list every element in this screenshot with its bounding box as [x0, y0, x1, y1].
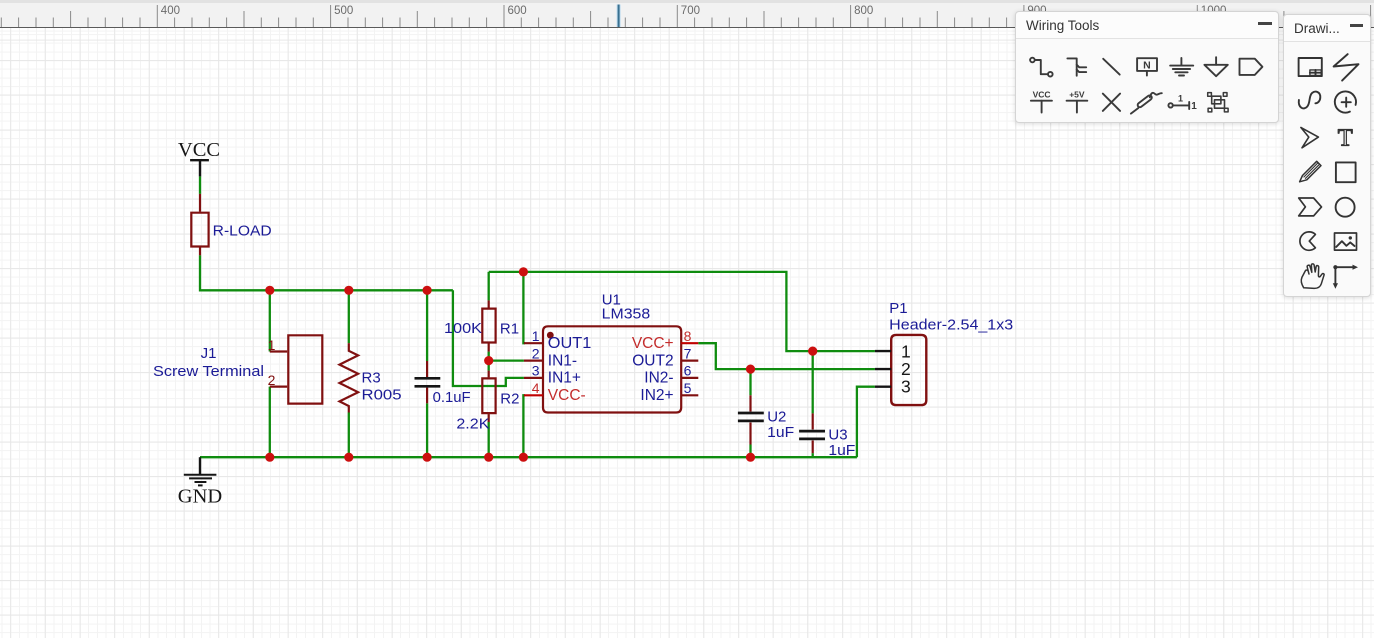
svg-text:1uF: 1uF: [767, 424, 794, 441]
svg-text:2: 2: [532, 345, 540, 361]
svg-text:+5V: +5V: [1069, 89, 1085, 99]
svg-text:1: 1: [1191, 101, 1197, 112]
svg-text:VCC+: VCC+: [632, 335, 674, 352]
svg-text:7: 7: [684, 345, 692, 361]
svg-text:IN1+: IN1+: [548, 370, 581, 387]
svg-text:T: T: [1338, 125, 1353, 152]
svg-text:6: 6: [684, 363, 692, 379]
svg-text:0.1uF: 0.1uF: [433, 389, 471, 406]
svg-text:400: 400: [161, 5, 180, 17]
svg-text:100K: 100K: [444, 320, 482, 337]
svg-text:N: N: [1143, 60, 1151, 72]
svg-text:3: 3: [532, 363, 540, 379]
svg-text:VCC-: VCC-: [548, 387, 586, 404]
svg-text:R005: R005: [362, 387, 402, 404]
svg-text:700: 700: [681, 5, 700, 17]
svg-text:1: 1: [1178, 93, 1183, 103]
svg-text:600: 600: [508, 5, 527, 17]
svg-text:1uF: 1uF: [828, 442, 855, 459]
svg-text:U3: U3: [828, 427, 847, 444]
svg-text:2: 2: [268, 372, 276, 388]
svg-text:R-LOAD: R-LOAD: [213, 223, 272, 240]
svg-text:VCC: VCC: [1033, 89, 1051, 99]
svg-text:3: 3: [901, 377, 911, 397]
svg-text:LM358: LM358: [602, 306, 651, 323]
svg-text:800: 800: [854, 5, 873, 17]
svg-text:P1: P1: [889, 300, 907, 317]
svg-text:IN2+: IN2+: [640, 387, 673, 404]
svg-text:1: 1: [268, 337, 276, 353]
svg-text:OUT1: OUT1: [548, 335, 592, 352]
svg-text:Header-2.54_1x3: Header-2.54_1x3: [889, 316, 1013, 333]
svg-text:8: 8: [684, 328, 692, 344]
svg-text:J1: J1: [201, 345, 217, 362]
svg-text:GND: GND: [178, 486, 222, 508]
svg-text:IN2-: IN2-: [644, 370, 673, 387]
svg-text:U2: U2: [767, 409, 786, 426]
svg-text:VCC: VCC: [178, 139, 220, 161]
svg-text:R3: R3: [362, 370, 381, 387]
svg-text:4: 4: [532, 380, 540, 396]
svg-text:2.2K: 2.2K: [456, 416, 489, 433]
svg-text:R2: R2: [500, 391, 519, 408]
svg-text:Screw Terminal: Screw Terminal: [153, 363, 264, 380]
svg-text:5: 5: [684, 380, 692, 396]
svg-text:IN1-: IN1-: [548, 352, 577, 369]
svg-text:OUT2: OUT2: [632, 352, 673, 369]
svg-text:R1: R1: [500, 321, 519, 338]
svg-text:1: 1: [532, 328, 540, 344]
svg-text:500: 500: [334, 5, 353, 17]
